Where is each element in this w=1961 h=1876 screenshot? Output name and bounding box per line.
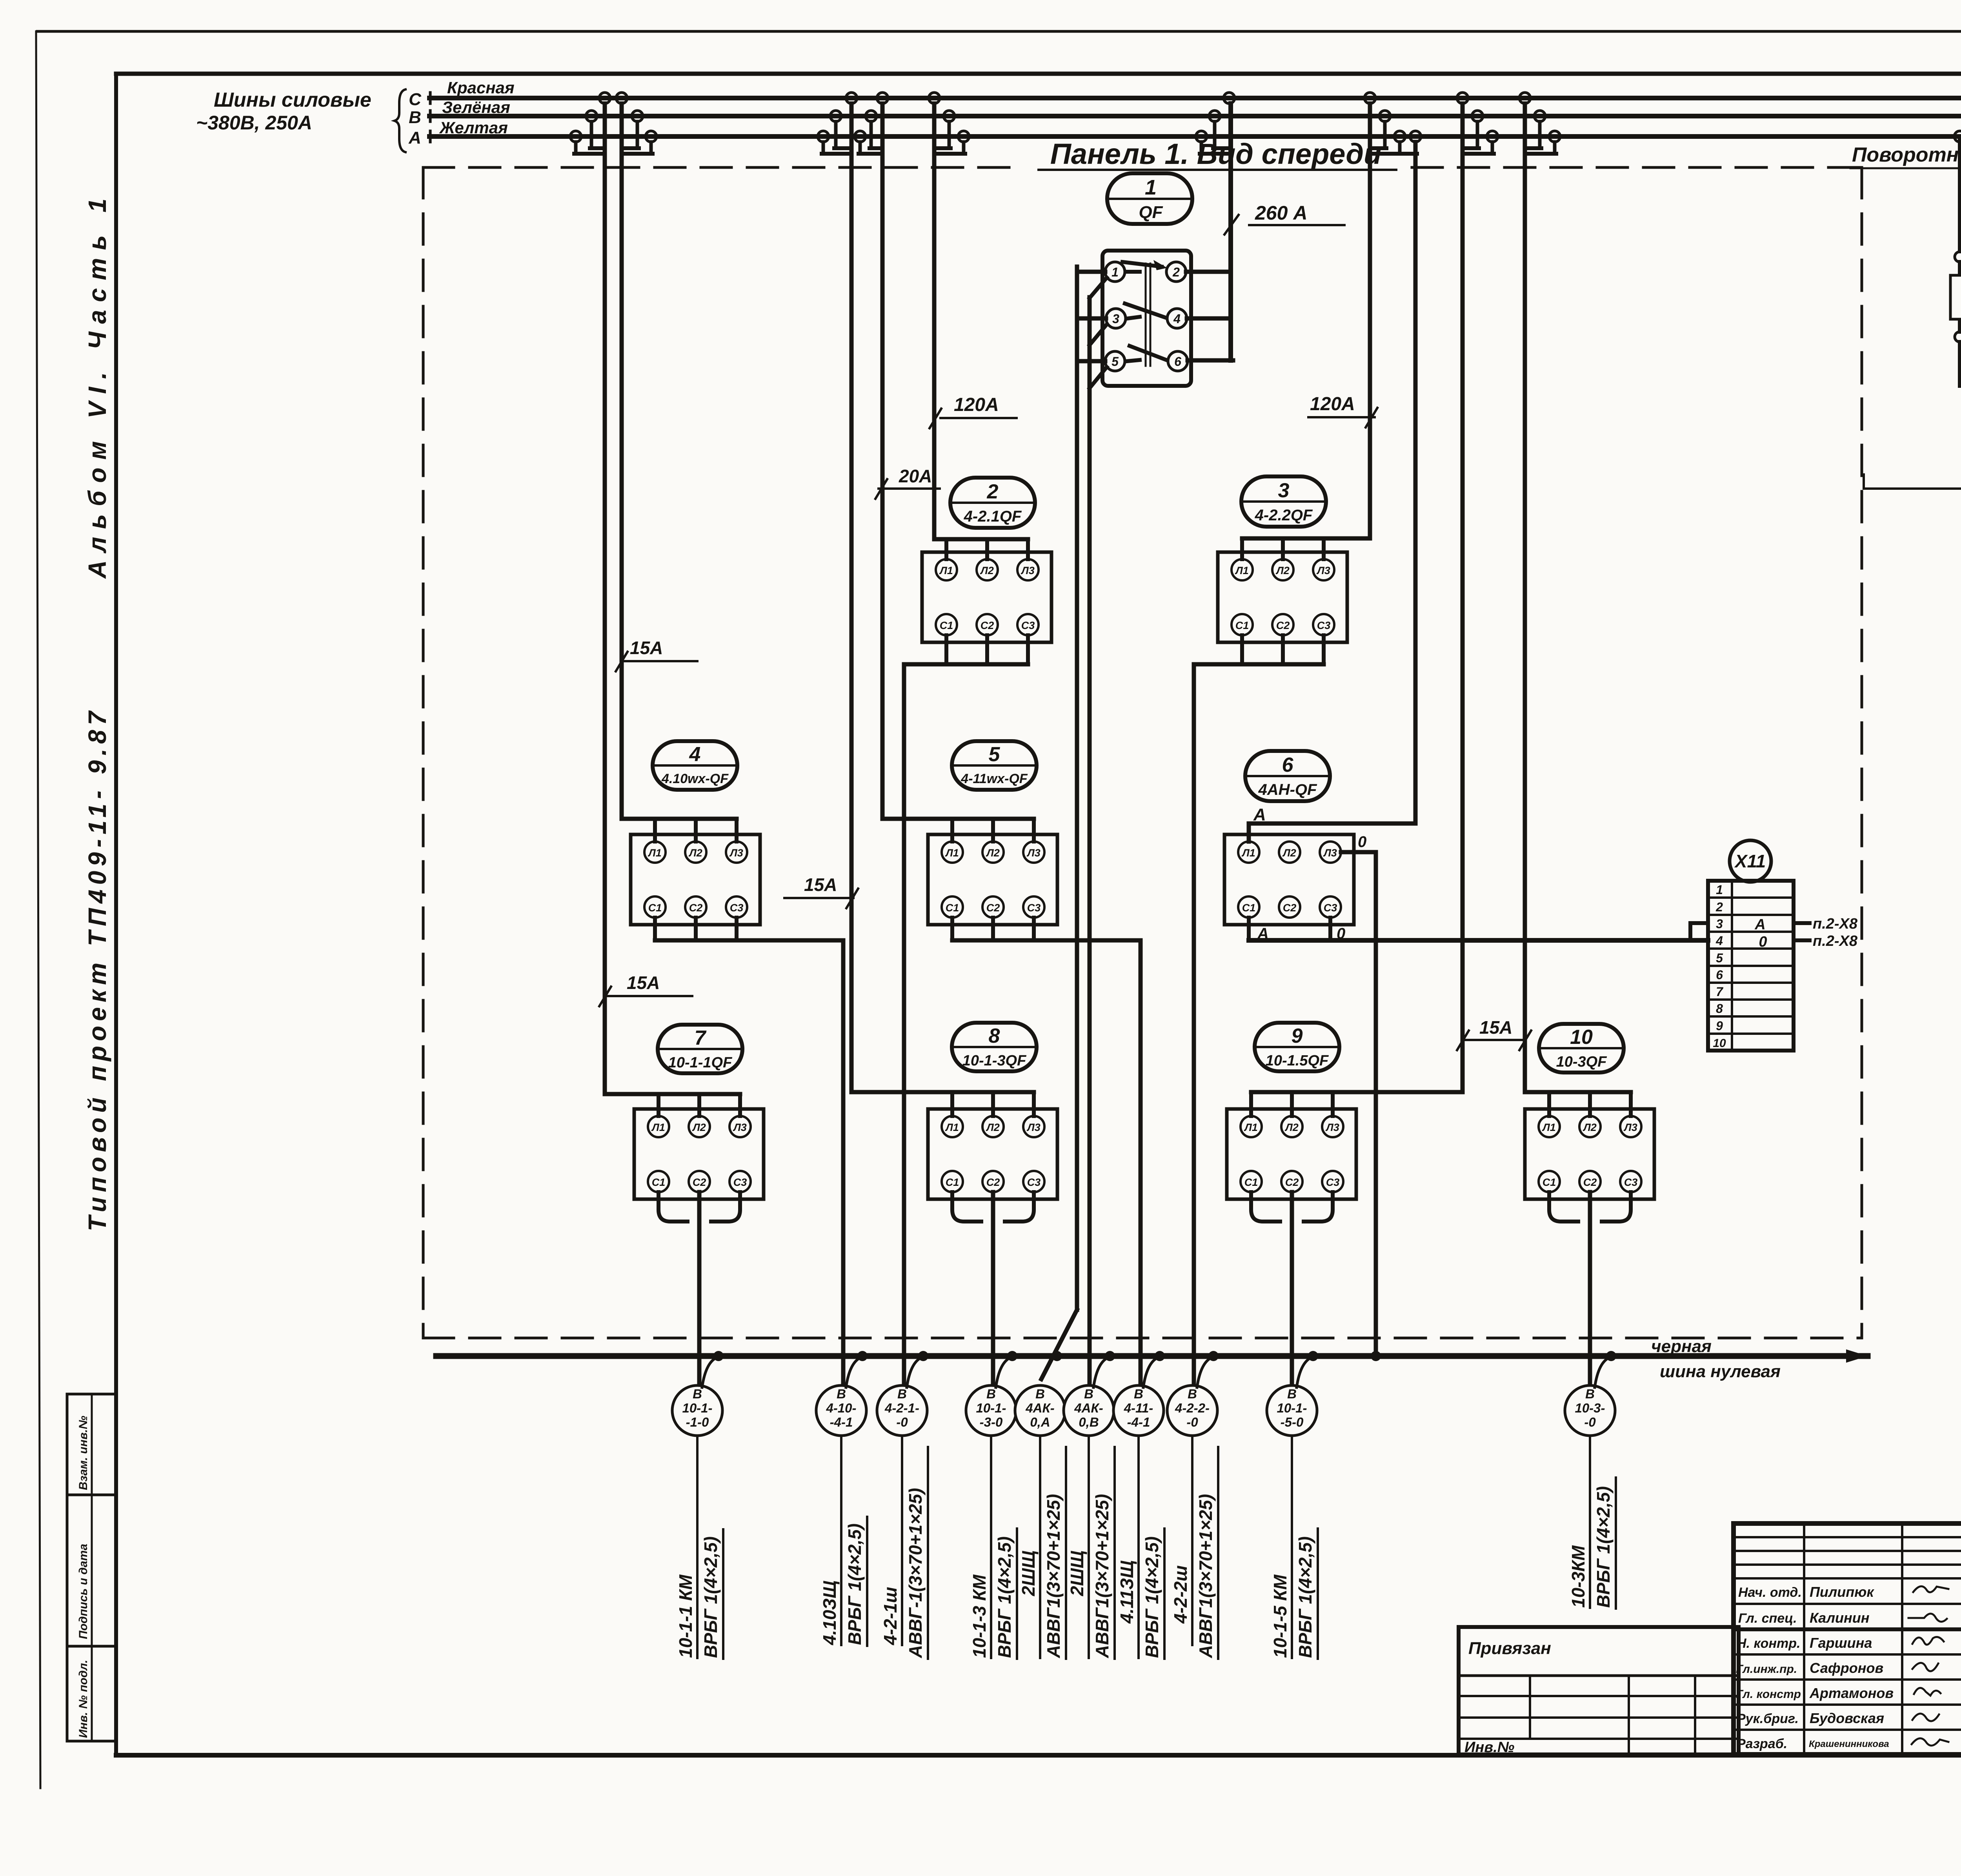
X11 block: [1708, 881, 1794, 1051]
QF1 trip bar: [1145, 264, 1147, 366]
cable circle 7: [1113, 1385, 1164, 1436]
svg-text:Л2: Л2: [1275, 565, 1290, 576]
svg-text:15А: 15А: [804, 874, 837, 895]
wire: feed QF9: [1251, 1090, 1463, 1094]
svg-text:ВРБГ 1(4×2,5): ВРБГ 1(4×2,5): [1593, 1486, 1614, 1608]
svg-text:ВРБГ 1(4×2,5): ВРБГ 1(4×2,5): [994, 1536, 1015, 1658]
svg-text:1: 1: [1716, 883, 1723, 897]
svg-text:Взам. инв.№: Взам. инв.№: [77, 1416, 90, 1490]
svg-text:С1: С1: [946, 1176, 959, 1188]
cable circle 4: [966, 1385, 1016, 1436]
svg-text:-4-1: -4-1: [1127, 1415, 1150, 1429]
QF1 blade 5-6: [1127, 360, 1140, 361]
panel border left dashed: [422, 167, 425, 1338]
wire: QF6 outputs to X11: [1247, 918, 1251, 940]
svg-text:В: В: [409, 108, 421, 127]
tap group Q (feeder to QF1 main): [1224, 93, 1235, 104]
terminal box 7: [634, 1109, 764, 1199]
frame left border: [114, 74, 118, 1755]
svg-text:С3: С3: [1324, 902, 1337, 914]
svg-text:9: 9: [1292, 1025, 1303, 1047]
svg-text:С1: С1: [1235, 620, 1249, 631]
svg-text:Л1: Л1: [1542, 1122, 1556, 1133]
switch box QF1: [1102, 251, 1191, 386]
svg-text:С3: С3: [1326, 1176, 1340, 1188]
brace: [395, 89, 406, 152]
svg-text:3: 3: [1278, 479, 1290, 502]
wire: feeder QF5 vertical: [880, 104, 885, 819]
svg-text:-0: -0: [896, 1415, 908, 1429]
bus A (yellow phase): [429, 134, 1961, 139]
cable line 10: [1589, 1436, 1591, 1608]
X11 circle label: [1730, 840, 1771, 882]
svg-text:3: 3: [1716, 917, 1723, 931]
svg-text:п.2-Х8: п.2-Х8: [1813, 916, 1858, 932]
svg-text:10-1-: 10-1-: [1277, 1401, 1307, 1415]
svg-text:С2: С2: [1276, 620, 1290, 631]
svg-text:С1: С1: [1543, 1176, 1556, 1188]
QF1 terminal 1: [1105, 262, 1125, 282]
svg-text:АВВГ-1(3×70+1×25): АВВГ-1(3×70+1×25): [905, 1488, 926, 1658]
cable line 4: [990, 1436, 992, 1658]
svg-text:6: 6: [1174, 354, 1181, 369]
svg-text:5: 5: [1111, 354, 1119, 369]
svg-text:~380В, 250А: ~380В, 250А: [196, 112, 312, 134]
svg-text:С2: С2: [986, 1176, 1000, 1188]
wire: QF8 outputs merge to cable 4: [952, 1192, 1034, 1222]
cable circle 2: [816, 1385, 866, 1436]
terminal box 8: [928, 1109, 1057, 1199]
svg-text:-0: -0: [1186, 1415, 1198, 1429]
svg-text:С2: С2: [1285, 1176, 1299, 1188]
tap group M1 (feeder to QF8): [846, 93, 857, 104]
svg-text:2: 2: [1172, 265, 1180, 279]
svg-text:0: 0: [1358, 833, 1366, 851]
svg-text:С1: С1: [940, 620, 953, 631]
tap voltmeter phase A: [1954, 131, 1961, 142]
svg-text:Шины силовые: Шины силовые: [214, 89, 371, 111]
null bus (black, neutral): [436, 1353, 1868, 1359]
svg-text:Рук.бриг.: Рук.бриг.: [1737, 1711, 1799, 1726]
wire: QF6 L3 neutral to null bus: [1341, 852, 1376, 1356]
X11 lead row4: [1794, 938, 1810, 942]
svg-text:С3: С3: [733, 1176, 747, 1188]
svg-text:Л1: Л1: [648, 847, 662, 859]
tap group M2 (feeder to QF5): [877, 93, 888, 104]
svg-text:10: 10: [1713, 1037, 1726, 1050]
wire: feed QF6 from phase A: [1249, 823, 1415, 842]
wire: feed QF5: [882, 817, 1034, 821]
svg-text:В: В: [693, 1387, 702, 1401]
svg-text:Л3: Л3: [729, 847, 743, 859]
breaker 8 oval label: [952, 1023, 1037, 1071]
svg-text:В: В: [1134, 1387, 1143, 1401]
svg-text:В: В: [837, 1387, 846, 1401]
svg-text:С3: С3: [1027, 902, 1041, 914]
svg-text:С2: С2: [689, 902, 703, 914]
svg-text:Л3: Л3: [1316, 565, 1330, 576]
svg-text:6: 6: [1716, 968, 1723, 982]
svg-text:3: 3: [1112, 312, 1119, 326]
svg-text:10-3QF: 10-3QF: [1556, 1054, 1608, 1070]
X11 lead row3: [1794, 921, 1810, 925]
svg-text:Л3: Л3: [733, 1122, 747, 1133]
wire: QF5 outputs to cable 7: [950, 918, 954, 940]
svg-text:А: А: [1754, 916, 1765, 933]
svg-text:9: 9: [1716, 1019, 1723, 1033]
bus B (green phase): [429, 114, 1961, 118]
tap group R2 (feeder to QF9): [1457, 93, 1468, 104]
wire: QF3 outputs to cable 8: [1240, 635, 1244, 664]
title block main frame: [1734, 1523, 1961, 1754]
wire: output bundle A down: [1075, 267, 1079, 1310]
cable line 5: [1039, 1436, 1041, 1658]
svg-text:Гл. спец.: Гл. спец.: [1738, 1611, 1797, 1626]
svg-text:-3-0: -3-0: [980, 1415, 1003, 1429]
svg-text:7: 7: [1716, 985, 1724, 999]
QF1 terminal 5: [1105, 351, 1125, 371]
svg-text:Инв.№: Инв.№: [1464, 1739, 1514, 1756]
svg-text:Нач. отд.: Нач. отд.: [1738, 1585, 1802, 1600]
svg-text:-4-1: -4-1: [830, 1415, 853, 1429]
panel border bottom dashed: [423, 1337, 1862, 1340]
svg-text:Н. контр.: Н. контр.: [1737, 1636, 1800, 1651]
svg-text:ВРБГ 1(4×2,5): ВРБГ 1(4×2,5): [1295, 1536, 1315, 1658]
svg-text:Артамонов: Артамонов: [1809, 1685, 1894, 1701]
QF1 terminal 6: [1168, 351, 1188, 371]
svg-text:2: 2: [1715, 900, 1723, 914]
svg-text:1: 1: [1145, 176, 1157, 199]
svg-text:С: С: [409, 90, 422, 109]
svg-text:В: В: [986, 1387, 996, 1401]
svg-text:Л3: Л3: [1323, 847, 1337, 859]
breaker 4 oval label: [653, 741, 737, 790]
svg-text:Л2: Л2: [1583, 1122, 1597, 1133]
svg-text:С2: С2: [980, 620, 994, 631]
svg-text:1: 1: [1111, 265, 1119, 279]
svg-text:Л2: Л2: [1282, 847, 1296, 859]
cable line 2: [840, 1436, 842, 1645]
svg-text:-5-0: -5-0: [1281, 1415, 1304, 1429]
svg-text:Типовой проект ТП409-11- 9.8: Типовой проект ТП409-11- 9.87: [83, 707, 111, 1231]
QF1 terminal 4: [1167, 309, 1187, 328]
svg-text:Л1: Л1: [651, 1122, 665, 1133]
terminal box 3: [1218, 552, 1347, 642]
cable circle 8: [1167, 1385, 1217, 1436]
svg-text:4-2.2QF: 4-2.2QF: [1255, 507, 1313, 524]
svg-text:10-1-1 КМ: 10-1-1 КМ: [675, 1574, 696, 1658]
svg-text:8: 8: [989, 1025, 1000, 1047]
svg-text:-0: -0: [1584, 1415, 1596, 1429]
cable line 3: [901, 1436, 903, 1645]
wire: feed QF7: [605, 1092, 740, 1096]
cable line 8: [1191, 1436, 1193, 1645]
svg-text:В: В: [1287, 1387, 1297, 1401]
svg-text:С3: С3: [1317, 620, 1331, 631]
wire: feed QF10: [1525, 1090, 1631, 1094]
svg-text:10-1.5QF: 10-1.5QF: [1266, 1053, 1329, 1069]
null bus junction of QF6 neutral: [1371, 1351, 1381, 1361]
QF1 blade 3-4: [1128, 317, 1140, 318]
svg-text:А: А: [408, 128, 421, 147]
svg-text:10-1-3 КМ: 10-1-3 КМ: [969, 1574, 990, 1658]
svg-text:10-1-3QF: 10-1-3QF: [962, 1053, 1027, 1069]
wire: QF1 left outputs: [1077, 270, 1105, 274]
wire: feeder QF9 vertical: [1461, 104, 1465, 1092]
terminal box 10: [1525, 1109, 1654, 1199]
svg-text:В: В: [1035, 1387, 1045, 1401]
cable line 1: [696, 1436, 699, 1658]
outer left paper edge: [36, 31, 40, 1788]
svg-text:Л3: Л3: [1026, 1122, 1041, 1133]
svg-text:4.10ЗЩ: 4.10ЗЩ: [819, 1580, 840, 1645]
svg-text:0,В: 0,В: [1079, 1415, 1099, 1429]
svg-text:10-1-1QF: 10-1-1QF: [668, 1054, 733, 1071]
svg-text:Привязан: Привязан: [1468, 1639, 1551, 1658]
terminal box 9: [1227, 1109, 1356, 1199]
svg-text:4-2.1QF: 4-2.1QF: [964, 508, 1022, 525]
svg-text:С2: С2: [693, 1176, 706, 1188]
terminal box 6: [1224, 834, 1354, 925]
svg-text:2: 2: [987, 480, 999, 503]
svg-text:В: В: [897, 1387, 907, 1401]
svg-text:Л1: Л1: [939, 565, 953, 576]
tap group L2 (feeder to QF4): [616, 93, 627, 104]
wire: QF1 right side to supply: [1186, 270, 1231, 274]
svg-text:черная: черная: [1651, 1337, 1712, 1356]
svg-text:4АН-QF: 4АН-QF: [1258, 781, 1317, 798]
frame bottom border: [116, 1753, 1961, 1758]
svg-text:Л2: Л2: [980, 565, 994, 576]
svg-text:7: 7: [695, 1027, 707, 1049]
svg-text:С1: С1: [946, 902, 959, 914]
svg-text:10-3-: 10-3-: [1575, 1401, 1605, 1415]
svg-text:Л2: Л2: [986, 1122, 1000, 1133]
svg-text:2ШЩ: 2ШЩ: [1067, 1551, 1087, 1596]
svg-text:10-1-: 10-1-: [976, 1401, 1006, 1415]
svg-text:4: 4: [1715, 934, 1723, 948]
svg-text:С1: С1: [648, 902, 662, 914]
wire: QF10 outputs merge to cable 10: [1549, 1192, 1631, 1222]
svg-text:С3: С3: [1624, 1176, 1638, 1188]
svg-text:15А: 15А: [627, 973, 660, 993]
terminal box 4: [631, 834, 760, 925]
svg-text:10-3КМ: 10-3КМ: [1568, 1545, 1588, 1608]
svg-text:Красная: Красная: [447, 78, 515, 97]
wire: feed QF8: [851, 1090, 1034, 1094]
svg-text:2ШЩ: 2ШЩ: [1018, 1551, 1039, 1596]
wire: QF2 outputs to cable 3: [944, 635, 948, 664]
breaker 7 oval label: [658, 1025, 742, 1073]
bus C (red phase): [429, 96, 1961, 100]
svg-text:Л3: Л3: [1021, 565, 1035, 576]
wire: feeder QF3 vertical: [1368, 104, 1372, 538]
breaker 3 oval label: [1241, 476, 1326, 527]
svg-text:В: В: [1585, 1387, 1595, 1401]
wire: feed QF4: [622, 817, 737, 821]
cable circle 10: [1565, 1385, 1615, 1436]
breaker 10 oval label: [1539, 1024, 1624, 1073]
cable circle 9: [1267, 1385, 1317, 1436]
svg-text:В: В: [1084, 1387, 1093, 1401]
svg-text:С1: С1: [1242, 902, 1256, 914]
breaker 6 oval label: [1245, 751, 1330, 801]
svg-text:Л1: Л1: [1235, 565, 1249, 576]
svg-text:Пилипюк: Пилипюк: [1810, 1584, 1874, 1600]
cable circle 3: [877, 1385, 927, 1436]
svg-text:260 А: 260 А: [1255, 202, 1307, 224]
svg-text:Поворотный лист. Вид со стор: Поворотный лист. Вид со стороны монтажа: [1852, 144, 1961, 166]
svg-text:Желтая: Желтая: [439, 118, 508, 137]
svg-text:Л3: Л3: [1026, 847, 1041, 859]
tap group L1 (feeder to QF7): [599, 93, 610, 104]
bus start ticks: [429, 93, 432, 104]
svg-text:Инв. № подл.: Инв. № подл.: [77, 1660, 90, 1738]
svg-text:4-2-1-: 4-2-1-: [884, 1401, 919, 1415]
breaker 9 oval label: [1255, 1023, 1339, 1071]
inner frame top: [116, 72, 1961, 76]
wire: QF1 supply vertical 260A: [1228, 104, 1233, 360]
cable line 6: [1088, 1436, 1090, 1658]
svg-text:АВВГ1(3×70+1×25): АВВГ1(3×70+1×25): [1195, 1494, 1216, 1658]
svg-text:Л2: Л2: [986, 847, 1000, 859]
svg-text:4-11-: 4-11-: [1124, 1401, 1153, 1415]
svg-text:Зелёная: Зелёная: [442, 98, 510, 116]
svg-text:Калинин: Калинин: [1810, 1610, 1870, 1626]
svg-text:4-11wx-QF: 4-11wx-QF: [960, 771, 1028, 786]
svg-text:Гл.инж.пр.: Гл.инж.пр.: [1736, 1663, 1797, 1676]
QF1 terminal 3: [1106, 309, 1126, 328]
svg-text:Гл. констр: Гл. констр: [1736, 1688, 1801, 1701]
svg-text:Л1: Л1: [1241, 847, 1255, 859]
svg-text:4-2-2ш: 4-2-2ш: [1170, 1565, 1191, 1624]
wire: feed QF3: [1242, 536, 1370, 541]
tap group R3 (feeder to QF10): [1519, 93, 1530, 104]
QF1 terminal 2: [1166, 262, 1186, 282]
svg-text:Л2: Л2: [1284, 1122, 1299, 1133]
svg-text:6: 6: [1282, 754, 1294, 776]
wire: feeder QF8 vertical: [850, 104, 854, 1092]
svg-text:4: 4: [1173, 312, 1181, 326]
svg-text:С2: С2: [1283, 902, 1297, 914]
svg-text:4АК-: 4АК-: [1074, 1401, 1103, 1415]
svg-text:20А: 20А: [899, 466, 932, 486]
cable circle 1: [672, 1385, 722, 1436]
panel border top dashed: [423, 166, 1020, 169]
svg-text:8: 8: [1716, 1002, 1723, 1016]
svg-text:ВРБГ 1(4×2,5): ВРБГ 1(4×2,5): [844, 1523, 865, 1645]
wire: QF1 diagonal jumpers: [1090, 278, 1107, 298]
privyazan block: [1459, 1627, 1739, 1754]
svg-text:С3: С3: [1027, 1176, 1041, 1188]
wire: feeder QF6 vertical: [1413, 142, 1418, 823]
svg-text:Л1: Л1: [945, 847, 959, 859]
wire: feeder QF2 vertical: [932, 104, 937, 539]
svg-text:С1: С1: [1244, 1176, 1258, 1188]
svg-text:Будовская: Будовская: [1810, 1710, 1884, 1726]
left margin stamp box: [67, 1394, 116, 1741]
wire: voltmeter drop A: [1958, 136, 1961, 251]
svg-text:ВРБГ 1(4×2,5): ВРБГ 1(4×2,5): [1142, 1536, 1162, 1658]
cable line 9: [1291, 1436, 1293, 1658]
svg-text:С1: С1: [652, 1176, 666, 1188]
svg-text:С2: С2: [986, 902, 1000, 914]
svg-text:Гаршина: Гаршина: [1810, 1635, 1872, 1651]
svg-text:АВВГ1(3×70+1×25): АВВГ1(3×70+1×25): [1092, 1494, 1112, 1658]
svg-text:АВВГ1(3×70+1×25): АВВГ1(3×70+1×25): [1043, 1494, 1064, 1658]
svg-text:Л1: Л1: [1244, 1122, 1258, 1133]
cable circle 5: [1015, 1385, 1065, 1436]
svg-text:Крашенинникова: Крашенинникова: [1809, 1739, 1889, 1749]
terminal box 2: [922, 552, 1051, 642]
svg-text:10: 10: [1570, 1026, 1593, 1049]
QF1 blade 1-2: [1127, 270, 1140, 274]
svg-text:Х11: Х11: [1734, 851, 1766, 871]
cable label fraction bars: [722, 1529, 724, 1659]
outer top border line: [37, 30, 1961, 33]
svg-text:С2: С2: [1583, 1176, 1597, 1188]
svg-text:15А: 15А: [1479, 1017, 1512, 1038]
wire: feed QF2: [934, 537, 1028, 542]
svg-text:4-10-: 4-10-: [826, 1401, 856, 1415]
svg-text:шина нулевая: шина нулевая: [1660, 1362, 1781, 1381]
svg-text:Альбом VI. Часть 1: Альбом VI. Часть 1: [83, 191, 111, 579]
svg-text:120А: 120А: [954, 394, 999, 415]
svg-text:QF: QF: [1139, 203, 1163, 222]
terminal box 5: [928, 834, 1057, 925]
svg-text:Сафронов: Сафронов: [1810, 1660, 1883, 1676]
cable line 7: [1137, 1436, 1140, 1658]
tap group R1 (feeder to QF3): [1364, 93, 1375, 104]
wire: QF9 outputs merge to cable 9: [1251, 1192, 1333, 1222]
tap group M3 (feeder to QF2): [929, 93, 940, 104]
fuse FU1: [1950, 275, 1961, 319]
svg-text:Подпись и дата: Подпись и дата: [77, 1544, 90, 1639]
tap A-only (feeder to QF6): [1410, 131, 1421, 142]
svg-text:10-1-5 КМ: 10-1-5 КМ: [1270, 1574, 1290, 1658]
wire: QF4 outputs to cable 2: [653, 918, 657, 940]
svg-text:4: 4: [689, 743, 701, 766]
svg-text:Л2: Л2: [692, 1122, 706, 1133]
svg-text:0: 0: [1759, 934, 1767, 950]
wire: output bundle B down: [1088, 297, 1092, 1386]
svg-text:15А: 15А: [630, 638, 663, 658]
svg-text:4.11ЗЩ: 4.11ЗЩ: [1117, 1560, 1137, 1624]
svg-text:ВРБГ 1(4×2,5): ВРБГ 1(4×2,5): [700, 1536, 721, 1658]
svg-text:Л2: Л2: [688, 847, 702, 859]
wire: diagonal to cable circle 5: [1041, 1310, 1077, 1379]
wire: QF7 outputs merge to cable 1: [659, 1192, 740, 1222]
svg-text:п.2-Х8: п.2-Х8: [1813, 933, 1858, 949]
svg-text:В: В: [1188, 1387, 1197, 1401]
svg-text:4-2-1ш: 4-2-1ш: [880, 1587, 900, 1645]
wire: feeder QF10 vertical: [1523, 104, 1527, 1092]
svg-text:С3: С3: [1021, 620, 1035, 631]
svg-text:5: 5: [1716, 951, 1723, 965]
svg-text:Разраб.: Разраб.: [1737, 1736, 1787, 1751]
svg-text:10-1-: 10-1-: [682, 1401, 712, 1415]
breaker 2 oval label: [950, 478, 1035, 528]
cable circle 6: [1064, 1385, 1114, 1436]
svg-text:Л3: Л3: [1623, 1122, 1637, 1133]
svg-text:С3: С3: [730, 902, 744, 914]
breaker 5 oval label: [952, 741, 1037, 790]
panel border right dashed: [1861, 167, 1863, 1338]
svg-text:5: 5: [989, 743, 1001, 766]
wire: feeder QF4 vertical: [620, 104, 624, 819]
breaker 1 oval label: [1107, 173, 1192, 224]
wire: feeder QF7 vertical: [603, 104, 607, 1094]
